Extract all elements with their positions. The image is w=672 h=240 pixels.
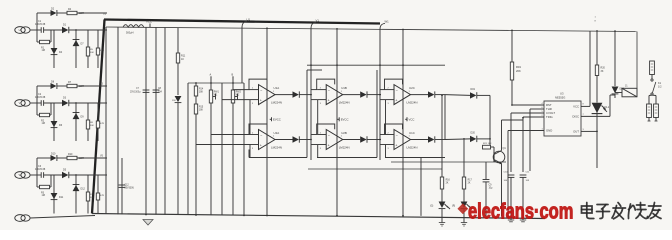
svg-text:U3: U3 bbox=[560, 92, 564, 96]
diode D2 bbox=[51, 8, 57, 17]
svg-text:D4: D4 bbox=[59, 51, 63, 54]
svg-text:VCC: VCC bbox=[146, 20, 152, 24]
svg-text:U1: U1 bbox=[247, 18, 251, 22]
resistor R11 1K bbox=[176, 28, 186, 95]
svg-text:1/2: 1/2 bbox=[658, 85, 662, 88]
terminal NC bbox=[647, 96, 652, 122]
svg-text:LM224N: LM224N bbox=[407, 100, 418, 104]
wire RST bbox=[512, 104, 544, 106]
svg-text:2: 2 bbox=[252, 132, 254, 134]
svg-text:30K: 30K bbox=[90, 52, 94, 54]
wire bbox=[336, 29, 338, 216]
svg-text:R21 10K: R21 10K bbox=[483, 143, 492, 145]
svg-text:R14: R14 bbox=[199, 89, 204, 91]
wire bbox=[221, 83, 223, 215]
resistor R7 110R bbox=[67, 81, 84, 88]
capacitor C10 104 bbox=[504, 172, 515, 221]
svg-text:W1: W1 bbox=[385, 20, 390, 24]
junction dot bbox=[507, 216, 509, 218]
wire bbox=[248, 150, 250, 158]
op-amp U2B LM224N bbox=[317, 124, 381, 150]
svg-text:W2: W2 bbox=[236, 95, 240, 97]
svg-text:U2B: U2B bbox=[341, 131, 347, 135]
svg-text:1: 1 bbox=[273, 91, 275, 93]
wire bbox=[164, 28, 166, 215]
resistor R17 2K bbox=[462, 139, 472, 189]
wire bbox=[211, 134, 250, 136]
junction dot bbox=[336, 64, 338, 66]
junction dot bbox=[195, 82, 197, 84]
resistor R5 bbox=[86, 30, 94, 68]
relay coil J1 bbox=[622, 85, 637, 97]
inductor L1 bbox=[123, 25, 144, 35]
svg-text:3: 3 bbox=[252, 103, 254, 105]
wire bbox=[44, 102, 62, 104]
wire bbox=[402, 30, 404, 216]
svg-text:R17: R17 bbox=[468, 180, 473, 182]
node V1 tap bbox=[311, 19, 319, 66]
wire bbox=[249, 157, 307, 159]
wire bbox=[311, 134, 318, 136]
junction dot bbox=[310, 64, 312, 66]
diode D5 bbox=[62, 168, 69, 178]
terminal COM bbox=[650, 61, 655, 79]
watermark elecfans.com bbox=[468, 199, 573, 224]
svg-text:104: 104 bbox=[504, 180, 508, 182]
power label VCC bbox=[405, 117, 414, 121]
svg-text:DW: DW bbox=[172, 100, 177, 102]
wire bbox=[477, 138, 490, 140]
svg-text:2K: 2K bbox=[446, 183, 449, 185]
resistor R15 30K bbox=[194, 104, 204, 114]
wire bbox=[249, 100, 251, 135]
svg-text:3: 3 bbox=[252, 148, 254, 150]
junction dot bbox=[489, 138, 491, 140]
junction dot bbox=[310, 94, 312, 96]
wire bbox=[105, 27, 107, 214]
junction dot bbox=[310, 139, 312, 141]
svg-text:A: A bbox=[210, 74, 212, 77]
node VCC bbox=[146, 20, 152, 28]
junction dot bbox=[596, 131, 598, 133]
junction dot bbox=[336, 28, 338, 30]
svg-text:D8: D8 bbox=[51, 81, 55, 84]
junction dot bbox=[75, 174, 77, 176]
wire bbox=[385, 145, 387, 158]
resistor R9 bbox=[96, 103, 104, 141]
svg-text:RW2: RW2 bbox=[236, 92, 242, 94]
terminal NO bbox=[654, 96, 659, 122]
wire bbox=[249, 145, 251, 158]
wire bbox=[306, 70, 308, 158]
wire bbox=[652, 94, 656, 96]
wire thick left vertical bus bbox=[92, 20, 105, 214]
wire bbox=[311, 99, 318, 101]
svg-text:30K: 30K bbox=[90, 125, 94, 127]
wire bbox=[310, 66, 312, 161]
svg-text:C7: C7 bbox=[136, 88, 140, 90]
watermark chinese text bbox=[582, 203, 662, 220]
junction dot bbox=[402, 215, 404, 217]
svg-text:2: 2 bbox=[252, 87, 254, 89]
wire bbox=[391, 161, 506, 163]
wire bbox=[317, 145, 319, 158]
svg-text:V5: V5 bbox=[100, 155, 104, 158]
connector V input terminal bbox=[15, 100, 30, 107]
svg-text:1K: 1K bbox=[181, 58, 184, 61]
svg-text:104: 104 bbox=[158, 92, 163, 94]
node V3 bbox=[100, 83, 104, 86]
svg-text:U: U bbox=[19, 28, 21, 32]
connector U input terminal bbox=[15, 27, 30, 34]
junction dot bbox=[75, 29, 77, 31]
ground bbox=[508, 220, 514, 222]
svg-text:30K: 30K bbox=[90, 197, 94, 199]
resistor R15 bbox=[96, 175, 104, 214]
wire bbox=[441, 209, 443, 223]
ground bbox=[461, 223, 467, 227]
transistor Q1 bbox=[493, 147, 506, 164]
svg-text:C11: C11 bbox=[526, 172, 531, 174]
wire bbox=[385, 100, 387, 135]
wire bbox=[379, 66, 381, 160]
wire bbox=[57, 85, 67, 87]
wire bbox=[307, 69, 322, 71]
svg-text:V1: V1 bbox=[316, 19, 320, 23]
svg-text:3: 3 bbox=[388, 148, 390, 150]
power label EVCC bbox=[337, 117, 348, 121]
resistor R16 2K bbox=[440, 95, 450, 189]
diode D6 bbox=[51, 103, 63, 141]
node V5 bbox=[100, 155, 104, 158]
resistor R1 1M bbox=[37, 30, 51, 52]
svg-text:500μH: 500μH bbox=[126, 31, 134, 34]
svg-text:3: 3 bbox=[320, 103, 322, 105]
wire thick phase bus bbox=[104, 20, 380, 24]
svg-text:(R): (R) bbox=[452, 206, 455, 208]
junction dot bbox=[266, 27, 268, 29]
svg-text:TRIG: TRIG bbox=[546, 115, 553, 119]
svg-text:3: 3 bbox=[388, 103, 390, 105]
zener diode DW1 bbox=[172, 96, 181, 215]
wire bbox=[380, 134, 386, 136]
wire rail right corner drop bbox=[636, 32, 638, 93]
svg-text:R16: R16 bbox=[446, 180, 451, 182]
junction dot bbox=[195, 214, 197, 216]
svg-text:DISC: DISC bbox=[572, 115, 579, 119]
capacitor C11 103 bbox=[520, 172, 531, 221]
op-amp U1B LM224N bbox=[317, 79, 381, 105]
svg-text:R8: R8 bbox=[90, 122, 94, 124]
op-amp U1A LM224N bbox=[249, 79, 311, 105]
svg-text:3K: 3K bbox=[601, 70, 604, 73]
wire bbox=[30, 174, 41, 176]
svg-text:D3: D3 bbox=[63, 96, 67, 99]
svg-text:1: 1 bbox=[409, 91, 411, 93]
svg-text:LM224N: LM224N bbox=[339, 100, 350, 104]
svg-text:D9: D9 bbox=[81, 116, 85, 119]
wire bbox=[69, 174, 107, 176]
capacitor C12 25V330u bbox=[119, 158, 135, 214]
svg-text:25V1500μ: 25V1500μ bbox=[130, 92, 141, 94]
capacitor C2 bbox=[35, 93, 46, 106]
node A bbox=[210, 74, 212, 79]
svg-text:1: 1 bbox=[341, 91, 343, 93]
wire bbox=[317, 157, 377, 159]
svg-text:8: 8 bbox=[595, 21, 597, 23]
wire bbox=[614, 31, 616, 86]
wire bbox=[69, 29, 107, 31]
wire bbox=[501, 120, 503, 151]
junction dot bbox=[75, 102, 77, 104]
diode D4 bbox=[51, 30, 63, 68]
wire bbox=[36, 158, 38, 175]
wire bbox=[243, 83, 245, 215]
junction dot bbox=[402, 29, 404, 31]
svg-text:Q1: Q1 bbox=[503, 147, 507, 150]
LED DL3 bbox=[452, 189, 472, 209]
op-amp U2A LM224N bbox=[249, 124, 311, 150]
capacitor C7 25V1500u bbox=[130, 27, 149, 214]
wire bbox=[311, 144, 318, 146]
svg-text:C9: C9 bbox=[489, 185, 493, 187]
wire bbox=[233, 89, 250, 91]
svg-text:LM224N: LM224N bbox=[271, 100, 282, 104]
svg-text:LM224N: LM224N bbox=[271, 145, 282, 149]
resistor R13 bbox=[86, 175, 94, 214]
svg-text:NE555G: NE555G bbox=[555, 96, 565, 100]
svg-text:−: − bbox=[396, 89, 399, 93]
svg-text:VCC: VCC bbox=[573, 104, 579, 108]
svg-text:47R: 47R bbox=[100, 123, 104, 125]
svg-text:LM224N: LM224N bbox=[339, 145, 350, 149]
wire bbox=[37, 12, 51, 14]
svg-text:U2A: U2A bbox=[274, 131, 280, 135]
svg-text:J1: J1 bbox=[625, 85, 628, 88]
connector W input terminal bbox=[15, 172, 30, 179]
svg-text:U1B: U1B bbox=[341, 86, 347, 90]
svg-text:(G): (G) bbox=[430, 206, 434, 208]
wire bbox=[477, 94, 490, 96]
svg-text:10μ: 10μ bbox=[489, 188, 494, 190]
junction dot bbox=[463, 138, 465, 140]
wire bbox=[308, 168, 442, 170]
wire bbox=[57, 157, 67, 159]
svg-text:3: 3 bbox=[320, 148, 322, 150]
potentiometer RW2 bbox=[231, 77, 241, 215]
watermark logo dot bbox=[457, 203, 468, 214]
node U1 tap bbox=[242, 18, 251, 84]
svg-text:1M: 1M bbox=[42, 194, 45, 197]
wire bbox=[77, 157, 107, 159]
junction dot bbox=[266, 215, 268, 217]
potentiometer RW1 bbox=[209, 77, 219, 215]
ic U3 NE555 bbox=[542, 92, 585, 137]
node U0 bbox=[103, 13, 107, 16]
wire bbox=[30, 102, 41, 104]
wire bbox=[463, 209, 465, 223]
svg-text:−: − bbox=[328, 134, 331, 138]
svg-text:C12: C12 bbox=[125, 185, 130, 187]
svg-text:1: 1 bbox=[595, 17, 597, 19]
wire CVOLT bbox=[511, 112, 544, 114]
svg-text:1M: 1M bbox=[42, 122, 45, 125]
node W1 tap bbox=[380, 20, 389, 67]
junction dot bbox=[243, 215, 245, 217]
diode D8 bbox=[51, 81, 57, 90]
wire bbox=[37, 85, 51, 87]
svg-text:2K: 2K bbox=[468, 183, 471, 185]
ground bbox=[143, 220, 153, 226]
svg-text:2: 2 bbox=[388, 87, 390, 89]
svg-text:R15: R15 bbox=[199, 107, 204, 109]
wire bbox=[36, 13, 38, 30]
capacitor C8 104 bbox=[153, 27, 163, 214]
wire bbox=[187, 83, 189, 215]
junction dot bbox=[232, 82, 234, 84]
svg-text:2: 2 bbox=[320, 132, 322, 134]
junction dot bbox=[379, 139, 381, 141]
svg-text:elecfans·com: elecfans·com bbox=[468, 199, 573, 224]
svg-text:V: V bbox=[19, 101, 21, 105]
wire DISC pin bbox=[581, 115, 610, 117]
svg-text:D19: D19 bbox=[471, 88, 476, 91]
resistor R6 bbox=[96, 30, 104, 68]
wire bbox=[69, 102, 107, 104]
connector N neutral terminal bbox=[15, 215, 30, 222]
junction dot bbox=[379, 94, 381, 96]
svg-text:1: 1 bbox=[341, 136, 343, 138]
svg-text:D20: D20 bbox=[471, 132, 476, 135]
wire VCC rail bbox=[106, 27, 637, 32]
diode D20 bbox=[445, 132, 477, 142]
svg-text:103: 103 bbox=[526, 180, 530, 182]
ground bbox=[439, 223, 445, 227]
svg-text:1: 1 bbox=[273, 136, 275, 138]
svg-text:30K: 30K bbox=[199, 110, 204, 112]
resistor R10 110R bbox=[67, 153, 84, 160]
diode D12 bbox=[73, 175, 86, 214]
svg-text:V3: V3 bbox=[100, 83, 104, 86]
diode D11 bbox=[51, 175, 64, 214]
wire bbox=[380, 144, 386, 146]
svg-text:W1: W1 bbox=[214, 95, 218, 97]
svg-text:U1C: U1C bbox=[409, 131, 415, 135]
svg-text:47R: 47R bbox=[100, 195, 104, 197]
svg-text:3: 3 bbox=[583, 129, 585, 131]
svg-text:DL1: DL1 bbox=[605, 106, 610, 109]
svg-text:VCC: VCC bbox=[409, 118, 415, 122]
diode D10 bbox=[51, 153, 57, 162]
wire bbox=[380, 99, 386, 101]
wire bbox=[44, 174, 62, 176]
svg-text:EVCC: EVCC bbox=[341, 118, 349, 122]
svg-text:U2C: U2C bbox=[409, 86, 415, 90]
capacitor C1 bbox=[35, 20, 46, 33]
wire bbox=[222, 99, 250, 101]
svg-text:1M: 1M bbox=[42, 49, 45, 52]
wire bbox=[44, 29, 62, 31]
wire bbox=[77, 85, 107, 87]
svg-text:R10: R10 bbox=[68, 153, 73, 156]
svg-text:D11: D11 bbox=[59, 196, 64, 199]
node label bbox=[595, 17, 597, 23]
wire bbox=[615, 92, 622, 94]
resistor R21 10K bbox=[483, 143, 495, 153]
op-amp U1C LM224N bbox=[385, 124, 446, 150]
svg-text:R19: R19 bbox=[516, 65, 521, 69]
wire divider top bus bbox=[188, 82, 244, 84]
resistor R14 30K bbox=[194, 83, 204, 215]
svg-text:R4: R4 bbox=[68, 8, 72, 11]
svg-text:2: 2 bbox=[320, 87, 322, 89]
capacitor C9 bbox=[483, 162, 493, 216]
svg-text:20K: 20K bbox=[516, 69, 521, 73]
wire bbox=[266, 28, 268, 215]
wire bbox=[596, 112, 598, 131]
junction dot bbox=[210, 82, 212, 84]
svg-text:1: 1 bbox=[409, 136, 411, 138]
resistor R4 110R bbox=[67, 8, 84, 15]
svg-text:D1: D1 bbox=[63, 23, 67, 26]
svg-text:B: B bbox=[232, 74, 234, 77]
svg-text:EVCC: EVCC bbox=[273, 118, 281, 122]
svg-text:47R: 47R bbox=[100, 50, 104, 52]
power label EVCC bbox=[270, 117, 281, 121]
svg-text:2: 2 bbox=[388, 132, 390, 134]
wire VCC pin bbox=[581, 105, 590, 107]
relay contact K1 bbox=[651, 79, 662, 95]
svg-text:−: − bbox=[260, 89, 263, 93]
svg-text:RW1: RW1 bbox=[214, 92, 220, 94]
wire bbox=[30, 29, 41, 31]
diode DD1 bbox=[612, 87, 625, 99]
diode D9 bbox=[73, 103, 85, 141]
resistor R19 20K bbox=[510, 30, 521, 105]
svg-text:D7: D7 bbox=[81, 43, 85, 46]
wire GND pin bbox=[508, 130, 544, 132]
wire THR bbox=[530, 108, 544, 110]
wire bbox=[57, 12, 67, 14]
svg-text:D10: D10 bbox=[51, 153, 56, 156]
node B bbox=[232, 74, 234, 79]
wire OUT pin bbox=[581, 130, 597, 132]
wire TRIG bbox=[523, 116, 544, 118]
wire bbox=[489, 95, 491, 147]
diode D7 bbox=[73, 30, 85, 68]
wire bbox=[77, 12, 107, 14]
svg-text:−: − bbox=[260, 134, 263, 138]
junction dot bbox=[596, 30, 598, 32]
wire bbox=[596, 131, 598, 168]
wire bbox=[501, 164, 503, 217]
svg-text:U1A: U1A bbox=[274, 86, 280, 90]
wire bbox=[444, 95, 446, 140]
capacitor C3 bbox=[35, 165, 46, 178]
svg-text:8: 8 bbox=[583, 104, 585, 106]
wire bbox=[380, 89, 386, 91]
diode D1 bbox=[62, 23, 69, 33]
resistor R8 bbox=[86, 103, 94, 141]
wire bbox=[317, 100, 319, 135]
junction dot bbox=[336, 215, 338, 217]
wire ground rail bbox=[92, 214, 545, 219]
svg-text:OUT: OUT bbox=[573, 130, 579, 134]
wire bbox=[307, 64, 445, 66]
junction dot bbox=[379, 64, 381, 66]
wire bbox=[311, 89, 318, 91]
wire bbox=[376, 70, 378, 158]
